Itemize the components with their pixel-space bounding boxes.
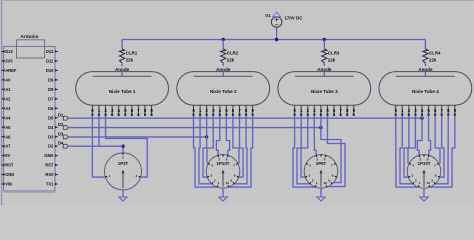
svg-text:10: 10: [324, 181, 328, 185]
svg-text:GND: GND: [5, 172, 14, 177]
svg-text:V1: V1: [265, 13, 271, 18]
svg-text:5: 5: [219, 158, 221, 162]
svg-text:Nixie Tube 4: Nixie Tube 4: [412, 89, 439, 94]
svg-text:8: 8: [435, 174, 437, 178]
svg-text:22k: 22k: [429, 58, 437, 63]
svg-text:A0: A0: [5, 77, 11, 82]
svg-text:3: 3: [308, 174, 310, 178]
svg-text:2: 2: [312, 179, 314, 183]
svg-text:A3: A3: [5, 106, 11, 111]
svg-text:A5: A5: [5, 125, 11, 130]
svg-text:D9: D9: [48, 77, 54, 82]
svg-text:RST: RST: [45, 163, 54, 168]
svg-text:D13: D13: [5, 49, 13, 54]
svg-text:7: 7: [434, 164, 436, 168]
svg-text:1: 1: [316, 181, 318, 185]
svg-text:A7: A7: [5, 144, 11, 149]
svg-text:RST: RST: [5, 163, 14, 168]
svg-text:6: 6: [427, 158, 429, 162]
svg-text:D3: D3: [48, 134, 54, 139]
svg-text:7: 7: [233, 164, 235, 168]
svg-text:A4: A4: [5, 115, 11, 120]
svg-text:Arduino: Arduino: [21, 34, 39, 39]
svg-text:AREF: AREF: [5, 68, 17, 73]
svg-text:8: 8: [234, 174, 236, 178]
svg-text:1: 1: [419, 181, 421, 185]
svg-text:CLR1: CLR1: [126, 51, 138, 56]
svg-text:5: 5: [317, 158, 319, 162]
svg-text:4: 4: [412, 164, 414, 168]
svg-text:9: 9: [431, 179, 433, 183]
svg-text:D2: D2: [48, 144, 54, 149]
svg-text:5V: 5V: [5, 153, 10, 158]
svg-text:9: 9: [328, 179, 330, 183]
svg-text:6: 6: [226, 158, 228, 162]
svg-text:3: 3: [411, 174, 413, 178]
svg-text:22k: 22k: [328, 58, 336, 63]
svg-text:4: 4: [211, 164, 213, 168]
svg-text:6: 6: [324, 158, 326, 162]
svg-text:1: 1: [218, 181, 220, 185]
svg-text:170V DC: 170V DC: [284, 15, 303, 20]
svg-text:3: 3: [210, 174, 212, 178]
svg-text:VIN: VIN: [5, 182, 12, 187]
svg-text:22k: 22k: [126, 58, 134, 63]
svg-text:D8: D8: [48, 87, 54, 92]
svg-text:D12: D12: [46, 49, 54, 54]
svg-text:Anode: Anode: [317, 67, 332, 72]
svg-text:D11: D11: [46, 59, 54, 64]
svg-text:TX1: TX1: [46, 182, 54, 187]
svg-text:RX0: RX0: [45, 172, 54, 177]
svg-text:D4: D4: [48, 125, 54, 130]
svg-text:Anode: Anode: [216, 67, 231, 72]
svg-text:D5: D5: [48, 115, 54, 120]
svg-text:7: 7: [331, 164, 333, 168]
svg-text:2: 2: [415, 179, 417, 183]
svg-text:3: 3: [136, 174, 138, 178]
svg-text:Anode: Anode: [115, 67, 130, 72]
svg-text:A1: A1: [5, 87, 11, 92]
svg-text:4: 4: [309, 164, 311, 168]
svg-text:A6: A6: [5, 134, 11, 139]
svg-text:D7: D7: [48, 96, 54, 101]
svg-text:8: 8: [332, 174, 334, 178]
svg-text:1: 1: [109, 174, 111, 178]
svg-text:2: 2: [214, 179, 216, 183]
svg-text:Nixie Tube 1: Nixie Tube 1: [109, 89, 136, 94]
svg-text:1P2T: 1P2T: [118, 161, 129, 166]
svg-text:10: 10: [427, 181, 431, 185]
svg-text:A2: A2: [5, 96, 11, 101]
svg-text:Nixie Tube 2: Nixie Tube 2: [210, 89, 237, 94]
svg-text:9: 9: [230, 179, 232, 183]
svg-text:CLR3: CLR3: [328, 51, 340, 56]
svg-text:CLR2: CLR2: [227, 51, 239, 56]
svg-text:GND: GND: [44, 153, 53, 158]
svg-text:3V3: 3V3: [5, 59, 13, 64]
svg-text:22k: 22k: [227, 58, 235, 63]
svg-text:Nixie Tube 3: Nixie Tube 3: [311, 89, 338, 94]
svg-text:2: 2: [122, 156, 124, 160]
svg-text:D10: D10: [46, 68, 54, 73]
svg-text:10: 10: [226, 181, 230, 185]
svg-text:Anode: Anode: [418, 67, 433, 72]
svg-text:5: 5: [420, 158, 422, 162]
svg-text:CLR4: CLR4: [429, 51, 441, 56]
svg-text:D6: D6: [48, 106, 54, 111]
